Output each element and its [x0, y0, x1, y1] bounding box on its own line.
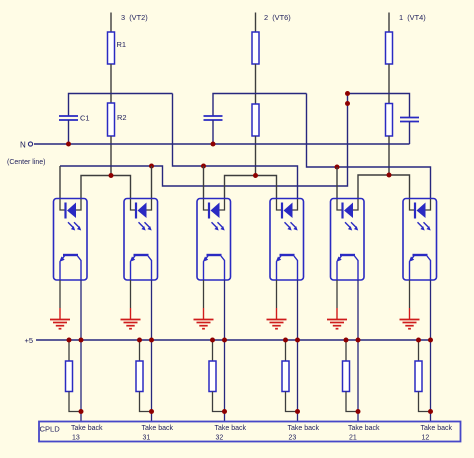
junction rail res 6 [416, 338, 421, 343]
capacitor phase1 [400, 118, 419, 122]
ground 1 [50, 280, 70, 329]
junction phase3 bus [109, 173, 114, 178]
series resistor phase2 [252, 32, 259, 64]
wire phase3 feed [173, 94, 298, 199]
svg-text:R1: R1 [117, 40, 127, 49]
junction cpld pin 3 [222, 409, 227, 414]
shunt resistor phase2 [252, 104, 259, 136]
pull-up resistor 4 [282, 340, 298, 412]
label C1 [80, 114, 90, 123]
shunt resistor phase1 [386, 104, 393, 137]
junction rail coll 4 [295, 338, 300, 343]
junction rail res 1 [67, 338, 72, 343]
label Take back 13 [71, 425, 103, 441]
junction U3 left feed [201, 164, 206, 169]
ground 6 [400, 280, 420, 329]
svg-text:+5: +5 [25, 336, 34, 345]
junction cpld pin 2 [149, 409, 154, 414]
junction rail res 3 [210, 338, 215, 343]
optocoupler U5 [331, 199, 365, 281]
svg-text:21: 21 [349, 434, 357, 441]
pull-up resistor 2 [136, 340, 152, 412]
wire U3 left pin [203, 166, 205, 198]
label R2 [117, 113, 127, 122]
ground 3 [194, 280, 214, 329]
N center line rail [34, 143, 410, 145]
junction phase1 stub [345, 101, 350, 106]
junction rail res 2 [137, 338, 142, 343]
pull-up resistor 6 [415, 340, 431, 412]
svg-text:31: 31 [143, 434, 151, 441]
junction rail res 5 [344, 338, 349, 343]
wire U2 right pin [151, 166, 153, 198]
label Take back 23 [288, 425, 320, 441]
svg-text:32: 32 [216, 434, 224, 441]
label Take back 21 [348, 425, 380, 441]
svg-text:Take back: Take back [71, 425, 103, 432]
junction U2 collector feed [149, 164, 154, 169]
pull-up resistor 5 [343, 340, 359, 412]
optocoupler U6 [403, 199, 437, 281]
wire C1 to N [68, 120, 70, 144]
capacitor phase2 [204, 116, 223, 120]
svg-text:12: 12 [422, 434, 430, 441]
junction phase2 bus [253, 173, 258, 178]
wire phase3 pair bus [81, 176, 131, 199]
node line phase1 [348, 94, 410, 118]
ground 5 [327, 280, 347, 329]
wire shunt1 bottom [388, 136, 390, 175]
svg-text:CPLD: CPLD [40, 425, 61, 434]
label Take back 32 [215, 425, 247, 441]
node N circle [28, 142, 32, 146]
wire phase1 pair bus [358, 175, 410, 198]
junction U5 left feed [335, 165, 340, 170]
svg-text:Take back: Take back [215, 425, 247, 432]
wire to node phase2 [255, 64, 257, 104]
junction rail coll 3 [222, 338, 227, 343]
pull-up resistor 3 [209, 340, 225, 412]
svg-text:23: 23 [289, 434, 297, 441]
optocoupler U2 [124, 199, 158, 281]
junction C1-N [66, 142, 71, 147]
label +5 [25, 336, 34, 345]
node line phase3 [69, 94, 173, 117]
terminal 2 (VT6) [256, 13, 291, 33]
wire collector U1 to CPLD [80, 280, 82, 422]
CPLD box [39, 422, 461, 442]
wire collector U6 to CPLD [430, 280, 432, 422]
junction cpld pin 4 [295, 409, 300, 414]
wire collector U3 to CPLD [224, 280, 226, 422]
svg-text:Take back: Take back [142, 425, 174, 432]
optocoupler U4 [270, 199, 304, 281]
wire U5 left pin [336, 167, 338, 198]
svg-text:1 (VT4): 1 (VT4) [399, 13, 426, 22]
label Take back 31 [142, 425, 174, 441]
svg-text:Take back: Take back [421, 425, 453, 432]
svg-text:R2: R2 [117, 113, 127, 122]
label N [20, 141, 26, 150]
terminal 3 (VT2) [111, 13, 148, 33]
optocoupler U1 [54, 199, 88, 281]
wire phase1 feed left [60, 94, 348, 187]
junction rail coll 1 [79, 338, 84, 343]
junction rail res 4 [283, 338, 288, 343]
wire cap1 to N [409, 122, 411, 145]
svg-text:Take back: Take back [288, 425, 320, 432]
series resistor phase1 [386, 32, 393, 64]
label CPLD [40, 425, 61, 434]
label Take back 12 [421, 425, 453, 441]
junction rail coll 2 [149, 338, 154, 343]
junction cpld pin 6 [428, 409, 433, 414]
junction rail coll 6 [428, 338, 433, 343]
wire to node phase1 [388, 64, 390, 104]
capacitor C1 [59, 116, 78, 120]
wire R1 to node [110, 64, 112, 103]
junction phase1 bus [387, 173, 392, 178]
junction cpld pin 5 [356, 409, 361, 414]
ground 2 [121, 280, 141, 329]
wire collector U4 to CPLD [297, 280, 299, 422]
junction phase1 node [345, 91, 350, 96]
junction cpld pin 1 [79, 409, 84, 414]
wire shunt2 bottom [255, 136, 257, 176]
wire collector U5 to CPLD [357, 280, 359, 422]
wire cap2 to N [212, 120, 214, 144]
label (Center line) [7, 159, 46, 166]
svg-text:(Center line): (Center line) [7, 159, 46, 166]
resistor R2 [108, 103, 115, 136]
terminal 1 (VT4) [389, 13, 426, 33]
wire R2 bottom [110, 136, 112, 176]
wire U1 left pin [59, 166, 61, 198]
resistor R1 [108, 32, 115, 64]
ground 4 [267, 280, 287, 329]
+5 rail [36, 339, 431, 341]
junction cap2-N [211, 142, 216, 147]
svg-text:C1: C1 [80, 114, 90, 123]
node line phase2 [213, 94, 307, 117]
wire collector U2 to CPLD [151, 280, 153, 422]
svg-text:Take back: Take back [348, 425, 380, 432]
svg-text:3 (VT2): 3 (VT2) [121, 13, 148, 22]
svg-text:N: N [20, 141, 26, 150]
wire phase2 feed [307, 94, 431, 199]
svg-text:2 (VT6): 2 (VT6) [264, 13, 291, 22]
optocoupler U3 [197, 199, 231, 281]
wire phase2 pair bus [225, 176, 277, 199]
svg-text:13: 13 [72, 434, 80, 441]
junction rail coll 5 [356, 338, 361, 343]
pull-up resistor 1 [66, 340, 82, 412]
label R1 [117, 40, 127, 49]
